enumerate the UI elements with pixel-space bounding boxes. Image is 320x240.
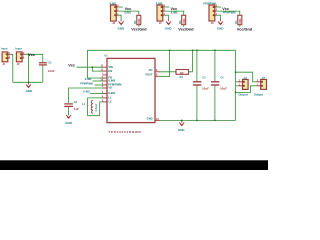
svg-text:GND: GND [65, 121, 73, 125]
svg-text:Vcc: Vcc [171, 7, 178, 11]
svg-text:GND: GND [178, 128, 186, 132]
svg-text:Vcc/Gnd: Vcc/Gnd [237, 27, 253, 31]
wire VOUT up [160, 50, 170, 76]
svg-text:J4: J4 [243, 76, 247, 80]
inductor L1 coil [91, 100, 93, 113]
junction input Vcc [28, 53, 30, 55]
resistor R3 [182, 15, 186, 24]
svg-text:VIN: VIN [108, 65, 113, 69]
wire Vcc node to C1 [29, 54, 43, 62]
svg-text:ILIM2: ILIM2 [156, 1, 163, 5]
wire ILIM1 stub [90, 93, 103, 95]
wire GND bottom rail [160, 119, 236, 121]
svg-text:J6: J6 [211, 21, 214, 25]
wire to J7 pin2 [236, 72, 257, 82]
svg-text:Vcc/Gnd: Vcc/Gnd [131, 27, 147, 31]
svg-text:1: 1 [23, 56, 25, 59]
connector J4 [238, 76, 249, 97]
svg-text:Vcc: Vcc [125, 7, 132, 11]
svg-text:R3: R3 [178, 20, 182, 24]
ground block1 [119, 19, 124, 24]
wire ILIM2 stub [93, 80, 104, 82]
svg-text:10uF: 10uF [202, 87, 209, 91]
wire C1 bottom [42, 65, 44, 82]
capacitor C2 [64, 104, 73, 107]
capacitor C1 [39, 63, 47, 65]
inductor L1 wiring [88, 98, 103, 116]
svg-text:GND: GND [217, 27, 225, 31]
wire output vertical [235, 50, 237, 120]
wire to J4 pin2 [236, 81, 238, 83]
wire R1 to rail [189, 50, 193, 72]
svg-text:J3: J3 [112, 21, 115, 25]
svg-text:PG: PG [149, 68, 153, 72]
svg-text:10uF: 10uF [48, 69, 55, 73]
wire to J4 pin1 [236, 85, 238, 87]
U1 right pin numbers [156, 69, 159, 121]
svg-text:VOUT: VOUT [145, 72, 153, 76]
U1 right pin stubs [155, 72, 160, 121]
wire PFM/PWM stub [95, 84, 104, 86]
svg-text:Vcc: Vcc [68, 63, 75, 67]
capacitor C3 [196, 50, 198, 81]
ground main [179, 120, 184, 125]
wire VOUT top rail [88, 49, 236, 51]
wire J2 pin2 vertical [26, 54, 29, 82]
svg-text:PFM/PWM: PFM/PWM [203, 1, 216, 5]
bottom letterbox bar [0, 160, 268, 170]
ground block2 [166, 19, 171, 24]
wire branch to EN [92, 67, 103, 71]
ground block3 [218, 19, 223, 24]
wire R4 bottom [239, 25, 241, 27]
ground C2 [66, 115, 71, 118]
junction R1 rail [192, 49, 194, 51]
svg-text:Input: Input [1, 47, 7, 51]
svg-text:VS: VS [108, 86, 112, 90]
U1 right pin names [145, 68, 153, 121]
svg-text:ILIM1: ILIM1 [124, 10, 131, 14]
svg-text:EN: EN [108, 69, 112, 73]
wire J6 pin1 gnd [216, 15, 220, 19]
svg-text:PFM/PWM: PFM/PWM [223, 10, 236, 14]
U1 left pin stubs [103, 67, 107, 102]
junction VIN/EN [91, 66, 93, 68]
resistor R4 [238, 15, 242, 24]
svg-text:Vcc: Vcc [28, 53, 35, 57]
connector J1 [1, 47, 10, 66]
svg-text:GND: GND [118, 27, 126, 31]
svg-text:1.5uH: 1.5uH [94, 104, 98, 111]
wire R3 bottom [183, 25, 185, 27]
wire C2 bottom [68, 107, 70, 115]
svg-text:ILIM1: ILIM1 [108, 91, 115, 95]
junction gnd rail [181, 120, 183, 122]
wire J1 pin2 to GND rail [10, 54, 13, 82]
svg-text:10uF: 10uF [220, 87, 227, 91]
svg-text:1: 1 [9, 56, 11, 59]
connector J2 [15, 47, 26, 66]
junction input gnd [28, 81, 30, 83]
svg-text:100k: 100k [138, 18, 141, 24]
svg-text:100k: 100k [239, 18, 242, 24]
resistor R1 [176, 70, 189, 75]
wire J3 pin1 gnd [118, 15, 121, 19]
svg-text:Input: Input [15, 47, 21, 51]
svg-text:ILIM1: ILIM1 [83, 90, 90, 94]
connector J7 [254, 76, 267, 97]
svg-text:ILIM1: ILIM1 [110, 1, 117, 5]
svg-text:R4: R4 [234, 20, 238, 24]
svg-text:ILIM2: ILIM2 [171, 10, 178, 14]
wire J3 Vcc [118, 6, 123, 8]
svg-text:C4: C4 [220, 75, 224, 79]
svg-text:L2: L2 [108, 100, 112, 104]
svg-text:C2: C2 [74, 100, 78, 104]
capacitor C4 [214, 50, 216, 81]
svg-text:TPS63051RNWR: TPS63051RNWR [108, 130, 141, 134]
wire to J7 pin1 [236, 86, 257, 93]
svg-text:PFM/PWM: PFM/PWM [80, 81, 93, 85]
junction output bottom [235, 92, 237, 94]
wire VS to C2 [69, 88, 103, 103]
svg-text:L1: L1 [108, 96, 112, 100]
svg-text:Vcc: Vcc [222, 7, 229, 11]
wire J6 Vcc [216, 6, 221, 8]
wire J6 net to R4 [216, 11, 239, 15]
svg-text:ILIM2: ILIM2 [108, 79, 115, 83]
svg-text:L1: L1 [82, 102, 86, 106]
ground input [26, 82, 31, 87]
wire PG to R1 [160, 71, 177, 73]
U1 left pin names [108, 65, 122, 104]
svg-text:Output: Output [254, 92, 264, 96]
svg-text:U1: U1 [104, 53, 108, 57]
svg-text:C3: C3 [202, 75, 206, 79]
wire J3 net to R2 [118, 11, 139, 15]
U1 left pin numbers [100, 65, 103, 103]
svg-text:J5: J5 [159, 21, 162, 25]
connector J5 [156, 1, 166, 25]
svg-text:J7: J7 [262, 76, 266, 80]
wire J5 pin1 gnd [164, 15, 168, 19]
svg-text:R2: R2 [133, 20, 137, 24]
wire Vcc to VIN [77, 66, 104, 68]
svg-text:R1: R1 [180, 75, 184, 79]
wire rail to FB [88, 50, 104, 78]
wire J5 net to R3 [164, 11, 183, 15]
connector J3 [110, 1, 120, 25]
svg-text:1nF: 1nF [74, 107, 80, 111]
svg-text:Output: Output [238, 92, 248, 96]
svg-text:100k: 100k [183, 18, 186, 24]
op-amp U1 TPS63051 IC body [107, 58, 155, 122]
svg-text:ILIM2: ILIM2 [85, 77, 92, 81]
svg-text:Vcc/Gnd: Vcc/Gnd [178, 27, 194, 31]
wire J5 Vcc [164, 6, 169, 8]
svg-text:GND: GND [165, 27, 173, 31]
junction VOUT rail [169, 49, 171, 51]
junction output top [235, 71, 237, 73]
wire R2 bottom [138, 25, 140, 27]
svg-text:GND: GND [26, 89, 33, 93]
resistor R2 [137, 15, 141, 24]
svg-text:GND: GND [147, 117, 153, 121]
wire input ground rail [13, 81, 43, 83]
connector J6 [203, 1, 217, 25]
svg-text:C1: C1 [48, 61, 52, 65]
